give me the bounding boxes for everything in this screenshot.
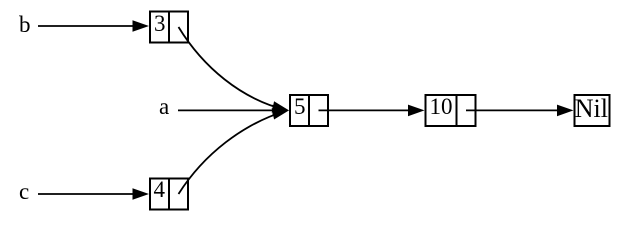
- svg-text:c: c: [19, 179, 29, 204]
- arrow c to cell-4: [38, 188, 149, 200]
- value 5: [294, 94, 306, 119]
- arrow a to cell-5: [178, 105, 289, 117]
- svg-text:b: b: [19, 12, 31, 37]
- label c: [19, 179, 29, 204]
- cons cell 4: [150, 179, 188, 210]
- arrow cell-5 to cell-10: [319, 105, 425, 117]
- arrow cell-10 to Nil: [466, 105, 574, 117]
- svg-text:5: 5: [294, 94, 306, 119]
- label a: [159, 94, 169, 119]
- value 3: [154, 11, 166, 36]
- svg-text:3: 3: [154, 11, 166, 36]
- cons cell 5: [290, 95, 328, 126]
- cons cell 10: [426, 95, 476, 126]
- svg-text:4: 4: [154, 177, 166, 202]
- value 10: [430, 94, 453, 119]
- pointer curve cell-4 to cell-5: [179, 105, 291, 194]
- label b: [19, 12, 31, 37]
- pointer curve cell-3 to cell-5: [179, 27, 291, 116]
- value 4: [154, 177, 166, 202]
- svg-text:a: a: [159, 94, 169, 119]
- cons cell 3: [150, 12, 188, 43]
- arrow b to cell-3: [38, 20, 149, 32]
- svg-text:10: 10: [430, 94, 453, 119]
- Nil box: [575, 95, 610, 126]
- svg-text:Nil: Nil: [575, 94, 608, 123]
- value Nil: [575, 94, 608, 123]
